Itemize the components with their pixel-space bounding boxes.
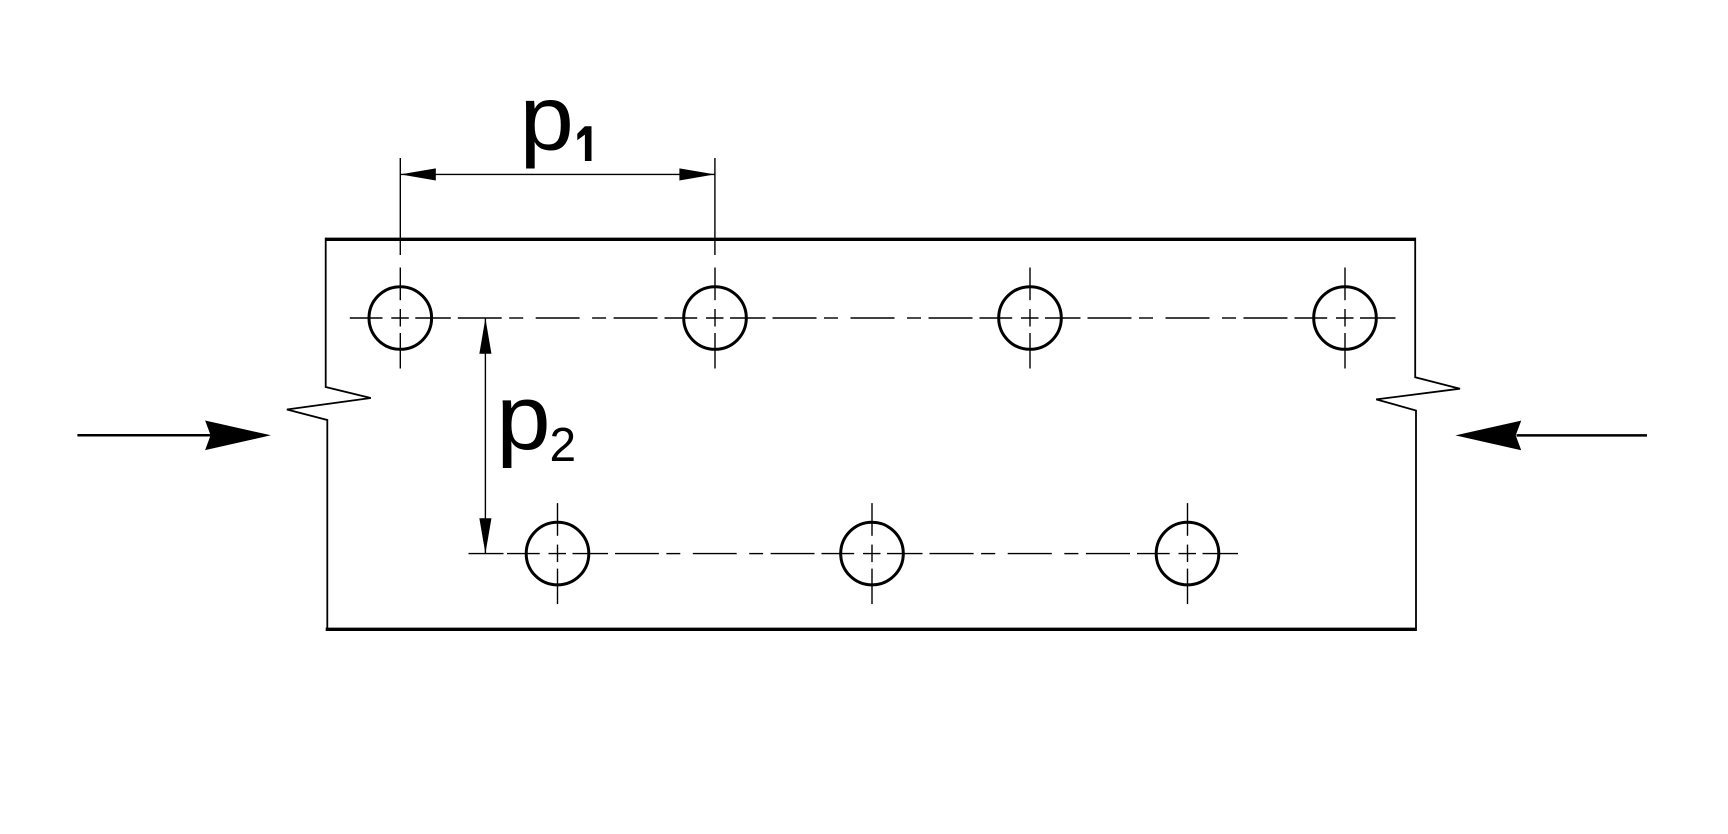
center mark bottom hole #1 — [557, 503, 559, 536]
svg-text:p: p — [520, 67, 574, 170]
force arrow right (compression) — [1517, 434, 1648, 437]
hole top row #4 — [1314, 287, 1377, 350]
center mark top hole #4 — [1344, 268, 1346, 301]
centerline top row segment 1 — [458, 317, 502, 319]
hole top row #1 — [369, 287, 432, 350]
center mark bottom hole #2 — [871, 503, 873, 536]
dimension p2 line — [484, 318, 486, 553]
dimension p2 arrowhead top — [479, 318, 491, 353]
dimension p2 arrowhead bottom — [479, 518, 491, 553]
plate bottom edge — [326, 628, 1416, 631]
hole bottom row #1 — [526, 522, 589, 585]
dimension p1 line — [400, 173, 715, 175]
dimension p1 extension line right — [714, 158, 716, 255]
svg-text:p: p — [496, 366, 550, 469]
hole top row #3 — [999, 287, 1062, 350]
centerline bottom row leading dash — [469, 553, 504, 555]
hole bottom row #2 — [841, 522, 904, 585]
plate left edge with break symbol — [287, 238, 371, 631]
dimension p1 arrowhead right — [679, 168, 715, 180]
centerline top row segment 3 — [1088, 317, 1132, 319]
center mark bottom hole #3 — [1187, 503, 1189, 536]
centerline top row segment 2 — [773, 317, 817, 319]
plate right edge with break symbol — [1376, 238, 1460, 631]
plate top edge — [326, 238, 1416, 241]
center mark top hole #3 — [1029, 268, 1031, 301]
centerline bottom row segment 1 — [615, 553, 659, 555]
center mark top hole #1 — [399, 268, 401, 301]
dimension p1 extension line left — [399, 158, 401, 255]
centerline bottom row segment 2 — [930, 553, 974, 555]
hole top row #2 — [684, 287, 747, 350]
dimension p1 arrowhead left — [400, 168, 436, 180]
center mark top hole #2 — [714, 268, 716, 301]
hole bottom row #3 — [1156, 522, 1219, 585]
svg-text:2: 2 — [550, 419, 577, 472]
force arrow left (compression) — [77, 434, 212, 437]
